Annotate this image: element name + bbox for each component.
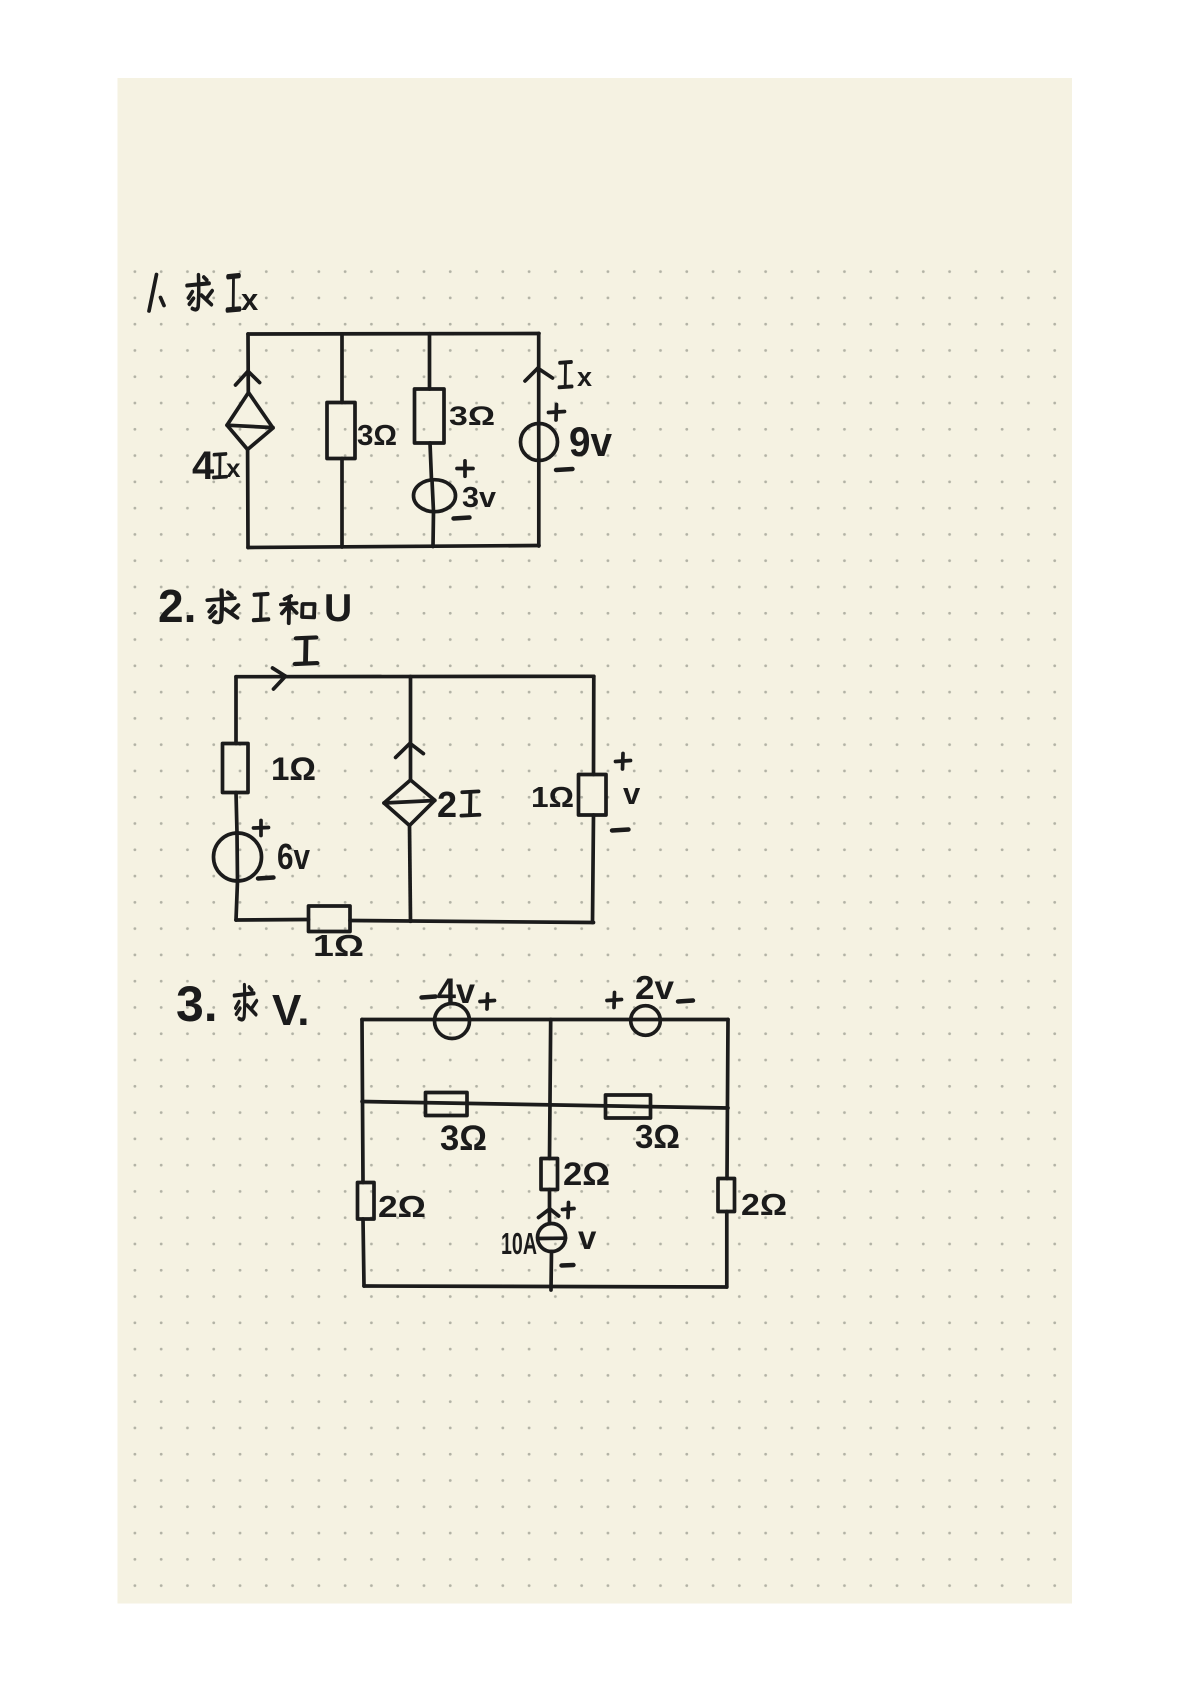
wire right branch lower (circuit 2): [593, 815, 594, 923]
svg-text:3Ω: 3Ω: [440, 1119, 487, 1158]
voltage source 2v (circle on top wire): [631, 1006, 661, 1036]
wire top (circuit 2): [236, 674, 594, 678]
wire left branch middle (circuit 2): [236, 793, 237, 834]
resistor 3ohm branch 3: [415, 389, 445, 443]
minus sign of V (circuit 3): [562, 1263, 574, 1268]
svg-text:x: x: [226, 453, 241, 483]
svg-text:2.: 2.: [158, 580, 196, 632]
bar of current source 10A: [538, 1236, 565, 1240]
resistor 1ohm bottom (circuit 2): [309, 906, 351, 932]
voltage source 4v (circle on top wire): [435, 1004, 470, 1039]
wire right branch upper (circuit 1): [537, 334, 541, 424]
current source 10A (circle): [538, 1224, 566, 1252]
wire top (circuit 3): [362, 1018, 728, 1022]
resistor 2ohm middle (circuit 3): [541, 1159, 558, 1190]
svg-text:2: 2: [437, 784, 457, 825]
wire right branch upper (circuit 3): [727, 1020, 728, 1179]
svg-text:3Ω: 3Ω: [449, 401, 495, 431]
svg-text:v: v: [578, 1219, 597, 1256]
wire left branch lower (circuit 1): [246, 450, 250, 548]
wire left branch upper (circuit 1): [246, 334, 250, 393]
wire branch 3 middle (circuit 1): [430, 443, 432, 480]
minus sign of 2v: [678, 1001, 693, 1002]
wire right branch lower (circuit 3): [725, 1212, 729, 1288]
wire branch 2 upper (circuit 1): [340, 334, 344, 403]
minus sign of 9V source: [556, 469, 573, 470]
minus sign of V (circuit 2): [612, 830, 629, 831]
wire middle branch lower (circuit 3): [549, 1252, 553, 1291]
title character 和: [281, 596, 315, 623]
svg-text:2Ω: 2Ω: [741, 1187, 787, 1222]
arrow I on top wire (circuit 2): [273, 668, 286, 689]
resistor 3ohm left (circuit 3): [426, 1093, 468, 1116]
svg-text:2Ω: 2Ω: [378, 1189, 426, 1224]
wire branch 2 lower (circuit 1): [340, 459, 344, 548]
svg-text:v: v: [623, 776, 641, 811]
resistor 1ohm left (circuit 2): [223, 744, 249, 793]
wire left branch lower (circuit 3): [363, 1219, 364, 1286]
voltage source 6v (circle): [214, 833, 262, 881]
arrow of dependent source 4Ix: [236, 371, 260, 385]
svg-text:1Ω: 1Ω: [313, 928, 364, 963]
plus sign of 6v source: [254, 821, 269, 836]
svg-text:V.: V.: [272, 986, 310, 1035]
title character 求 (problem 3): [234, 985, 256, 1020]
wire of 6v source through circle: [235, 833, 239, 881]
svg-text:9v: 9v: [569, 418, 613, 465]
svg-text:3v: 3v: [462, 482, 496, 514]
voltage source 9V (circle): [521, 424, 558, 461]
label 4Ix: [192, 444, 241, 488]
wire middle branch upper (circuit 2): [409, 677, 413, 781]
title character 求 (problem 2): [208, 590, 239, 622]
wire right branch upper (circuit 2): [592, 676, 596, 774]
wire bottom (circuit 1): [248, 546, 539, 548]
svg-text:3.: 3.: [176, 976, 218, 1032]
label I with arrow on top wire: [295, 637, 317, 664]
wire right branch lower (circuit 1): [537, 461, 541, 547]
plus sign of V (circuit 3): [563, 1203, 575, 1218]
wire of 3v source through ellipse: [432, 480, 434, 512]
wire middle branch between resistor and source (circuit 3): [548, 1190, 552, 1224]
wire left branch upper (circuit 2): [234, 677, 238, 744]
wire bottom right segment (circuit 2): [350, 921, 594, 923]
svg-text:2v: 2v: [635, 969, 675, 1006]
svg-text:2Ω: 2Ω: [563, 1156, 610, 1192]
title text Ix: [227, 276, 259, 317]
svg-text:10A: 10A: [501, 1226, 537, 1261]
svg-text:6v: 6v: [277, 836, 310, 877]
svg-text:4: 4: [192, 444, 215, 488]
svg-text:U: U: [324, 587, 352, 630]
wire middle branch upper (circuit 3): [550, 1020, 551, 1159]
wire branch 3 lower (circuit 1): [431, 512, 435, 547]
label minus of 4v: [422, 997, 436, 998]
resistor 1ohm right (circuit 2): [579, 775, 607, 816]
svg-text:x: x: [241, 282, 259, 317]
title text I: [254, 594, 269, 620]
resistor 2ohm right (circuit 3): [718, 1179, 735, 1212]
dependent source 4Ix (diamond): [227, 393, 273, 450]
resistor 3ohm branch 2: [327, 403, 355, 459]
wire left branch lower (circuit 2): [236, 881, 238, 920]
dependent source 2I (diamond): [384, 780, 435, 826]
wire middle horizontal (circuit 3): [362, 1102, 728, 1109]
arrow of current source 10A: [539, 1209, 559, 1218]
plus sign of 9V source: [549, 405, 565, 421]
label 2I: [437, 784, 479, 825]
arrow of dependent source 2I: [396, 743, 424, 757]
voltage source 3v (ellipse): [414, 480, 456, 512]
resistor 2ohm left (circuit 3): [358, 1183, 375, 1220]
plus sign of V (circuit 2): [616, 754, 631, 770]
svg-text:1Ω: 1Ω: [271, 751, 316, 787]
wire of 9V source through circle: [537, 424, 541, 461]
svg-text:x: x: [577, 362, 592, 392]
wire top (circuit 1): [248, 332, 539, 336]
plus sign of 2v: [607, 993, 622, 1008]
plus sign of 4v: [480, 994, 495, 1009]
label Ix (circuit 1): [559, 362, 592, 392]
title "1.": [149, 275, 164, 312]
svg-text:1Ω: 1Ω: [531, 782, 574, 814]
wire left branch upper (circuit 3): [362, 1020, 363, 1183]
arrow Ix on right branch: [525, 368, 553, 381]
svg-text:3Ω: 3Ω: [357, 420, 397, 452]
cream notebook page: [118, 78, 1073, 1604]
minus sign of 3v source: [454, 518, 470, 519]
wire bottom left segment (circuit 2): [236, 918, 309, 922]
plus sign of 3v source: [457, 461, 473, 477]
wire bottom (circuit 3): [364, 1286, 727, 1287]
svg-text:3Ω: 3Ω: [635, 1118, 680, 1155]
resistor 3ohm right (circuit 3): [606, 1095, 651, 1118]
wire middle branch lower (circuit 2): [410, 826, 411, 922]
minus sign of 6v source: [258, 878, 274, 879]
title character 求: [187, 275, 212, 310]
wire branch 3 upper (circuit 1): [428, 334, 432, 389]
dot grid: [122, 258, 1068, 1598]
